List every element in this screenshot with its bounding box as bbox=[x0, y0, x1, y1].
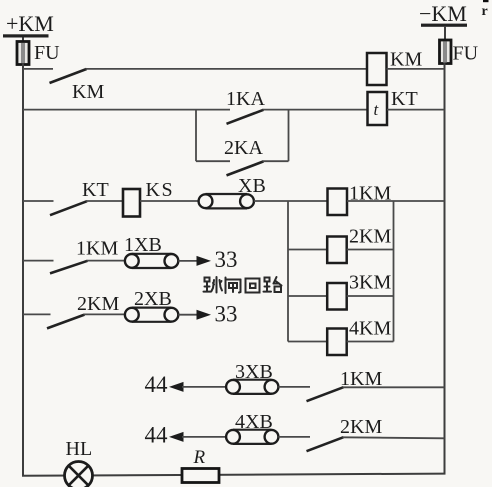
wire arrow to 3XB bbox=[182, 386, 227, 388]
wire 2KA branch left drop bbox=[195, 110, 197, 162]
svg-text:R: R bbox=[193, 447, 206, 468]
wire branch right vertical bbox=[393, 201, 395, 342]
wire bbox=[444, 27, 446, 41]
svg-text:KT: KT bbox=[391, 88, 418, 110]
wire 2KM coil row right bbox=[347, 249, 394, 251]
label trip circuit text bbox=[204, 277, 282, 293]
wire right bus bbox=[444, 63, 446, 475]
wire left bus bbox=[22, 63, 24, 477]
svg-text:44: 44 bbox=[145, 423, 169, 448]
resistor R bbox=[182, 469, 219, 483]
contact 2KM blade (row G) bbox=[307, 437, 344, 451]
wire row A to coil bbox=[86, 68, 368, 70]
wire 3KM coil row right bbox=[347, 295, 394, 297]
svg-text:4XB: 4XB bbox=[235, 411, 273, 433]
svg-text:3KM: 3KM bbox=[349, 272, 391, 294]
char hui bbox=[246, 279, 260, 293]
link 4XB bbox=[226, 430, 278, 444]
arrow from 3XB (row F) bbox=[169, 382, 184, 392]
svg-text:KM: KM bbox=[390, 49, 422, 71]
svg-text:44: 44 bbox=[145, 372, 169, 397]
svg-text:2KA: 2KA bbox=[224, 137, 263, 159]
coil 3KM bbox=[327, 283, 347, 310]
svg-text:FU: FU bbox=[34, 42, 60, 64]
wire 2KM contact to 2XB bbox=[84, 313, 126, 315]
svg-text:1KA: 1KA bbox=[226, 88, 265, 110]
svg-text:33: 33 bbox=[215, 302, 238, 327]
contact KT blade bbox=[50, 201, 87, 215]
wire KT coil to right bus bbox=[387, 109, 445, 111]
fuse FU (left) bbox=[17, 42, 29, 65]
wire 4KM coil row right bbox=[347, 341, 394, 343]
link 1XB bbox=[125, 254, 178, 268]
wire arrow to 4XB bbox=[182, 436, 227, 438]
svg-text:XB: XB bbox=[238, 175, 266, 197]
contact 2KA blade bbox=[227, 161, 264, 175]
arrow to 33 (row E) bbox=[197, 310, 212, 320]
svg-text:1XB: 1XB bbox=[124, 234, 162, 256]
wire 2KA branch right rise bbox=[288, 110, 290, 162]
wire row B left bbox=[23, 109, 230, 111]
wire bottom rail bbox=[22, 474, 446, 476]
wire 2KA row left bbox=[196, 160, 230, 162]
arrow from 4XB (row G) bbox=[169, 432, 184, 442]
fuse FU (right) bbox=[440, 40, 452, 64]
wire row D left stub bbox=[23, 260, 54, 262]
svg-text:+KM: +KM bbox=[6, 11, 54, 36]
arrow to 33 (row D) bbox=[197, 256, 212, 266]
sensor KS bbox=[123, 189, 140, 217]
svg-text:KT: KT bbox=[82, 179, 109, 201]
svg-text:KS: KS bbox=[146, 179, 175, 201]
wire KM coil to right bus bbox=[387, 68, 445, 70]
contact 2KM blade bbox=[47, 315, 85, 329]
svg-text:KM: KM bbox=[72, 81, 104, 103]
wire KS to XB bbox=[140, 200, 199, 202]
contact 1KM blade bbox=[50, 261, 88, 274]
coil 2KM bbox=[327, 237, 347, 264]
char tiao bbox=[204, 277, 223, 293]
svg-text:HL: HL bbox=[66, 438, 93, 460]
wire 4KM coil row left bbox=[288, 341, 327, 343]
link 3XB bbox=[226, 380, 278, 394]
wire row F right bbox=[343, 386, 445, 388]
coil 4KM bbox=[327, 329, 347, 356]
svg-text:4KM: 4KM bbox=[349, 318, 391, 340]
terminal bar +KM bbox=[3, 34, 49, 37]
contact 1KA blade bbox=[227, 110, 264, 124]
link XB bbox=[199, 194, 254, 208]
svg-text:33: 33 bbox=[215, 247, 238, 272]
wire 1KM coil to right bus bbox=[347, 200, 445, 202]
corner artifact glyph bbox=[482, 0, 489, 19]
lamp HL bbox=[65, 462, 93, 487]
wire row E left stub bbox=[23, 313, 51, 315]
coil KT bbox=[368, 92, 388, 125]
svg-text:2KM: 2KM bbox=[349, 226, 391, 248]
wire 2KA row right bbox=[263, 160, 289, 162]
wire bbox=[22, 38, 24, 43]
wire row C left stub bbox=[23, 200, 54, 202]
coil KM bbox=[367, 53, 387, 85]
wire 1KM contact to 1XB bbox=[87, 260, 126, 262]
svg-text:1KM: 1KM bbox=[76, 238, 118, 260]
wire XB to 1KM coil bbox=[254, 200, 328, 202]
svg-text:r: r bbox=[482, 4, 488, 19]
wire 4XB to contact bbox=[278, 436, 310, 438]
contact 1KM blade (row F) bbox=[307, 387, 344, 401]
terminal bar -KM bbox=[421, 24, 467, 27]
svg-text:2KM: 2KM bbox=[340, 416, 382, 438]
svg-text:2XB: 2XB bbox=[134, 288, 172, 310]
svg-text:3XB: 3XB bbox=[235, 361, 273, 383]
link 2XB bbox=[125, 308, 178, 322]
wire row B right bbox=[263, 109, 368, 111]
wire 1XB to arrow bbox=[178, 260, 198, 262]
wire 3KM coil row left bbox=[288, 295, 327, 297]
wire row A left stub bbox=[23, 68, 53, 70]
wire 3XB to contact bbox=[278, 386, 310, 388]
wire KT contact to KS bbox=[86, 200, 123, 202]
svg-text:2KM: 2KM bbox=[77, 293, 119, 315]
wire branch left vertical bbox=[287, 201, 289, 342]
wire 2KM coil row left bbox=[288, 249, 327, 251]
svg-text:FU: FU bbox=[453, 43, 479, 65]
char zha bbox=[226, 278, 241, 294]
wire 2XB to arrow bbox=[178, 314, 198, 316]
char lu bbox=[264, 277, 282, 292]
coil 1KM bbox=[328, 189, 348, 216]
wire row G right bbox=[343, 437, 445, 438]
svg-text:−KM: −KM bbox=[419, 1, 467, 26]
contact KM blade bbox=[50, 69, 87, 83]
